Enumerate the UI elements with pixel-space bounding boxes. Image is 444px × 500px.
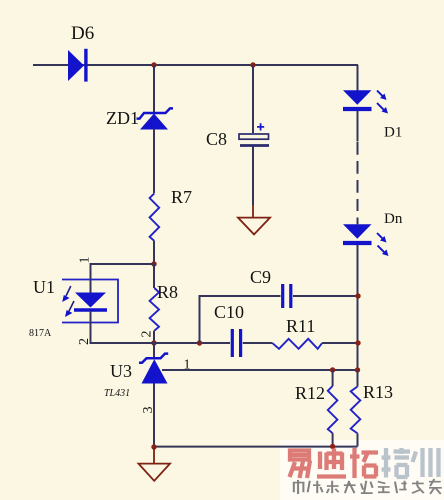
resistor R13: [351, 370, 361, 446]
wire dashed (LED string continues): [357, 142, 359, 211]
wire C9 branch: [200, 296, 359, 343]
svg-text:R11: R11: [286, 316, 315, 336]
capacitor C8: [239, 123, 269, 145]
opto-coupler U1: [62, 280, 118, 323]
watermark big char 4: [382, 448, 411, 478]
wire U1 pin1: [91, 264, 155, 280]
svg-text:TL431: TL431: [104, 388, 130, 399]
svg-text:Dn: Dn: [384, 211, 403, 227]
svg-text:ZD1: ZD1: [106, 108, 139, 128]
wire C8 column: [252, 65, 254, 133]
node B (R7 bottom / U1 pin1): [151, 261, 156, 266]
wire R8 bottom: [153, 331, 155, 343]
watermark big char 1: [290, 451, 311, 479]
wire to Dn: [357, 218, 359, 254]
diode D6: [68, 49, 88, 82]
node C9 right: [355, 293, 360, 298]
wire top rail: [33, 64, 358, 66]
svg-text:2: 2: [77, 338, 92, 345]
svg-text:D6: D6: [71, 23, 94, 44]
wire ground row: [154, 446, 358, 448]
node pin1/column: [355, 367, 360, 372]
svg-text:D1: D1: [384, 125, 402, 141]
svg-text:R8: R8: [157, 282, 178, 302]
LED D1: [343, 90, 388, 113]
wire C8 to ground: [252, 147, 254, 206]
svg-text:1: 1: [78, 257, 93, 264]
svg-text:U1: U1: [33, 277, 55, 297]
svg-text:2: 2: [140, 331, 155, 338]
node row/column: [355, 340, 360, 345]
resistor R11: [273, 339, 323, 349]
svg-text:C8: C8: [206, 129, 227, 149]
LED Dn: [343, 224, 389, 256]
svg-text:817A: 817A: [29, 328, 52, 339]
resistor R8: [150, 288, 159, 331]
wire ZD1 column upper: [153, 65, 155, 112]
node U3 pin3 / ground row: [151, 444, 156, 449]
ground (below U3): [139, 447, 171, 481]
wire feedback row: [91, 342, 359, 344]
watermark big char 5: [413, 448, 439, 477]
watermark backdrop: [280, 440, 444, 500]
wire R7 to node B: [153, 241, 155, 264]
resistor R7: [150, 193, 160, 241]
svg-text:3: 3: [141, 407, 156, 414]
svg-text:C9: C9: [250, 267, 271, 287]
wire ZD1 to R7: [153, 129, 155, 193]
wire U3 pin3: [153, 384, 155, 448]
svg-text:R13: R13: [363, 382, 393, 402]
node C9 branch: [197, 340, 202, 345]
wire U3 pin1 row: [162, 369, 358, 371]
zener diode ZD1: [137, 108, 174, 129]
ground (below C8): [238, 205, 270, 234]
capacitor C10: [232, 329, 240, 357]
wire right column top: [357, 65, 359, 142]
node R12 bottom: [330, 444, 335, 449]
svg-text:R7: R7: [171, 187, 192, 207]
svg-text:R12: R12: [295, 383, 325, 403]
node C8 top: [250, 62, 255, 67]
svg-text:U3: U3: [110, 361, 132, 381]
resistor R12: [328, 370, 338, 446]
watermark big char 2: [317, 449, 346, 477]
node R12 top: [330, 367, 335, 372]
node A (top rail / ZD1 column): [151, 62, 156, 67]
svg-text:1: 1: [184, 358, 191, 373]
svg-text:C10: C10: [214, 302, 244, 322]
capacitor C9: [283, 284, 291, 308]
shunt regulator U3 TL431: [139, 343, 168, 384]
wire right column lower: [357, 253, 359, 370]
wire R8 top: [153, 264, 155, 288]
watermark big char 3: [350, 448, 378, 478]
node D (row / U3): [151, 340, 156, 345]
wire U1 pin2: [91, 323, 155, 344]
watermark subtitle: [293, 479, 442, 494]
